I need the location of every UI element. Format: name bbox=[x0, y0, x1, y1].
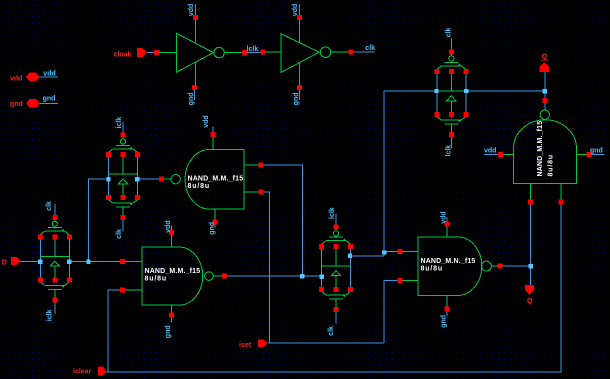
wire Q node down to Q output pin bbox=[530, 266, 532, 285]
svg-text:gnd: gnd bbox=[441, 315, 448, 328]
svg-text:gnd: gnd bbox=[188, 92, 195, 105]
wire NAND1 input B down to iset net bbox=[264, 192, 270, 343]
wire gnd pin stub bbox=[40, 102, 59, 104]
junction cross-couple node on NAND2 output bbox=[300, 274, 304, 278]
wire T1 right terminal to NAND1 output bubble bbox=[140, 178, 160, 180]
svg-text:vdd: vdd bbox=[292, 4, 299, 16]
nand gate U4 NAND_M.M._f15 (master latch) bbox=[120, 230, 227, 318]
wire NAND3 vdd tick bbox=[446, 217, 448, 222]
nand gate U6 NAND_M.M._f15 (rotated, output up) bbox=[498, 98, 592, 205]
junction iQ node bbox=[543, 89, 547, 93]
svg-text:clk: clk bbox=[46, 201, 53, 211]
svg-text:gnd: gnd bbox=[293, 92, 300, 105]
svg-text:gnd: gnd bbox=[165, 325, 172, 338]
wire NAND1 input A to cross-couple node bbox=[264, 165, 303, 274]
svg-text:clk: clk bbox=[445, 27, 452, 37]
svg-text:Q: Q bbox=[527, 298, 533, 305]
wire feedback node to NAND3 input A bbox=[384, 251, 397, 253]
svg-text:NAND_M.M._f15: NAND_M.M._f15 bbox=[145, 268, 201, 275]
ground symbol gnd bbox=[26, 99, 40, 108]
junction tap squares of T1 bbox=[106, 177, 110, 181]
svg-text:NAND_M.N._f15: NAND_M.N._f15 bbox=[421, 258, 476, 265]
wire NAND2 gnd tick bbox=[170, 318, 172, 323]
svg-text:8u/8u: 8u/8u bbox=[145, 276, 168, 283]
wire node m: T2 output to NAND2 input A bbox=[72, 261, 121, 263]
wire D input to tgate T2 bbox=[21, 261, 39, 263]
wire iclear pin to corner bbox=[107, 371, 108, 373]
nand gate U5 NAND_M.N._f15 (slave latch) bbox=[398, 222, 503, 312]
svg-text:iclear: iclear bbox=[73, 368, 92, 375]
svg-text:cloak: cloak bbox=[114, 51, 132, 58]
svg-text:clk: clk bbox=[328, 326, 335, 336]
wire T4 right rail to NAND4 output node bbox=[469, 90, 545, 92]
wire cloak input to inverter U1 bbox=[147, 52, 154, 54]
wire iQ pin down to NAND4 bubble bbox=[544, 72, 546, 110]
svg-text:vdd: vdd bbox=[165, 220, 172, 232]
wire gnd stub of U2 bbox=[299, 90, 301, 100]
wire Q node up to NAND4 input A bbox=[530, 204, 532, 266]
pin Q bbox=[525, 285, 534, 295]
svg-text:gnd: gnd bbox=[590, 147, 603, 154]
pin iset bbox=[258, 339, 268, 347]
svg-text:clk: clk bbox=[365, 45, 375, 52]
wire feedback vertical from iQ net corner down bbox=[383, 91, 385, 256]
svg-text:vdd: vdd bbox=[188, 4, 195, 16]
svg-text:8u/8u: 8u/8u bbox=[548, 154, 555, 177]
junction tap squares of T2 bbox=[38, 259, 42, 263]
wire T3 right rail to feedback node bbox=[352, 255, 384, 257]
junction tap squares of T4 bbox=[434, 89, 438, 93]
wire NAND3 gnd tick bbox=[446, 312, 448, 317]
svg-text:D: D bbox=[2, 259, 7, 266]
svg-text:vdd: vdd bbox=[203, 115, 210, 127]
pin iQ bbox=[540, 62, 549, 72]
pin D bbox=[11, 257, 21, 265]
wire NAND4 gnd stub bbox=[591, 153, 605, 155]
power symbol vdd bbox=[26, 73, 40, 82]
svg-text:iclk: iclk bbox=[116, 117, 123, 129]
svg-text:vdd: vdd bbox=[441, 211, 448, 223]
pin iclear bbox=[98, 367, 107, 376]
wire NAND2 output to tgate T3 left rail bbox=[227, 275, 319, 277]
junction feedback node at NAND3 input A bbox=[382, 250, 386, 254]
svg-text:gnd: gnd bbox=[43, 95, 56, 102]
junction Q node bbox=[528, 264, 532, 268]
wire lclk between U1 output and U2 input bbox=[247, 51, 261, 53]
wire NAND1 vdd tick bbox=[212, 127, 214, 133]
transmission gate T2 bbox=[38, 204, 72, 314]
wire clk from U2 output bbox=[353, 51, 374, 53]
svg-text:clk: clk bbox=[116, 229, 123, 239]
svg-text:gnd: gnd bbox=[10, 101, 23, 108]
wire iclear branch up to NAND2 input B bbox=[108, 290, 120, 372]
inverter U2 bbox=[261, 15, 354, 90]
wire NAND4 vdd stub bbox=[484, 153, 498, 155]
wire gnd stub of U1 bbox=[194, 90, 196, 100]
svg-text:lclk: lclk bbox=[445, 145, 452, 157]
svg-text:NAND_M.M._f15: NAND_M.M._f15 bbox=[537, 121, 544, 177]
svg-text:vdd: vdd bbox=[484, 147, 496, 154]
svg-text:iset: iset bbox=[239, 342, 252, 349]
wire NAND3 output to Q node bbox=[502, 265, 530, 267]
svg-text:NAND_M.M._f15: NAND_M.M._f15 bbox=[188, 175, 244, 182]
svg-text:iclk: iclk bbox=[47, 309, 54, 321]
nand gate U3 NAND_M.M._f15 (mirrored, output bubble on left) bbox=[159, 132, 263, 224]
transmission gate T1 bbox=[106, 122, 140, 232]
wire NAND1 gnd tick bbox=[214, 224, 216, 227]
junction node m (D latch input) bbox=[86, 259, 90, 263]
junction tap squares of T3 bbox=[319, 274, 323, 278]
transmission gate T4 bbox=[434, 39, 468, 149]
wire vdd stub of U1 bbox=[194, 4, 196, 15]
svg-text:lclk: lclk bbox=[329, 207, 336, 219]
wire vdd pin stub bbox=[40, 76, 59, 78]
wire NAND2 vdd tick bbox=[170, 226, 172, 231]
wire node m up to tgate T1 left terminal bbox=[89, 179, 107, 261]
wire iset net up to NAND3 input B bbox=[384, 280, 398, 343]
node red square at iQ net bbox=[542, 98, 547, 103]
svg-text:vdd: vdd bbox=[10, 75, 22, 82]
svg-text:lclk: lclk bbox=[247, 46, 259, 53]
inverter U1 bbox=[154, 15, 247, 90]
pin cloak bbox=[137, 48, 147, 57]
svg-text:vdd: vdd bbox=[43, 70, 55, 77]
wire NAND4 input B down and iclear net across bottom bbox=[108, 204, 561, 372]
wire vdd stub of U2 bbox=[299, 4, 301, 15]
transmission gate T3 bbox=[319, 213, 353, 323]
wire iset net horizontal bbox=[268, 342, 384, 344]
svg-text:8u/8u: 8u/8u bbox=[421, 265, 444, 272]
wire iQ net horizontal to tgate T4 left rail bbox=[384, 90, 434, 92]
svg-text:8u/8u: 8u/8u bbox=[188, 183, 211, 190]
svg-text:gnd: gnd bbox=[209, 222, 216, 235]
